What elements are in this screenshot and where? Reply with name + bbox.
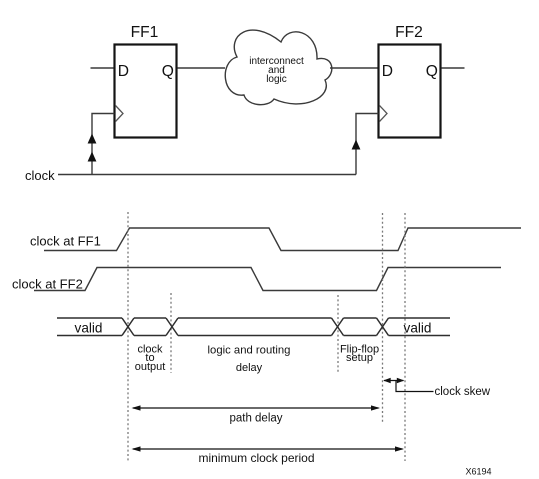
bus waveform data segments	[57, 318, 450, 336]
wire cloud to D input of FF2	[330, 67, 378, 69]
minimum clock period double arrow	[133, 448, 403, 450]
svg-text:delay: delay	[236, 362, 263, 374]
svg-text:valid: valid	[75, 321, 103, 336]
cloud interconnect and logic	[225, 30, 332, 105]
arrowhead up on FF2 clock wire	[352, 140, 361, 150]
svg-text:setup: setup	[346, 352, 373, 364]
bus crossover X2	[166, 318, 178, 336]
wire D input of FF1	[91, 67, 114, 69]
svg-text:output: output	[135, 361, 166, 373]
svg-text:X6194: X6194	[466, 467, 492, 477]
svg-text:Q: Q	[426, 63, 438, 80]
svg-text:clock: clock	[25, 168, 55, 183]
svg-text:minimum clock period: minimum clock period	[198, 451, 314, 465]
wire Q output of FF2	[442, 67, 465, 69]
svg-text:Q: Q	[162, 63, 174, 80]
svg-text:FF2: FF2	[395, 24, 423, 41]
guide dotted line at FF2 second edge	[382, 213, 384, 424]
guide dotted line at setup start	[337, 295, 339, 373]
waveform clock at FF1	[44, 228, 521, 251]
bus crossover X3	[332, 318, 344, 336]
clock skew leader line	[396, 381, 434, 392]
clock skew double arrow	[384, 380, 404, 382]
wire clock branch to FF1	[92, 114, 115, 175]
guide dotted line at FF1 second edge	[404, 213, 406, 461]
svg-text:clock skew: clock skew	[435, 386, 491, 398]
wire Q output of FF1 to cloud	[178, 67, 226, 69]
svg-text:D: D	[382, 63, 393, 80]
flip-flop U2 box FF2	[379, 45, 441, 138]
svg-text:FF1: FF1	[131, 24, 159, 41]
arrowhead up 2 on FF1 clock wire	[88, 152, 97, 162]
svg-text:D: D	[118, 63, 129, 80]
wire clock net horizontal	[58, 174, 356, 176]
arrowhead up 1 on FF1 clock wire	[88, 134, 97, 144]
svg-text:clock at FF1: clock at FF1	[30, 234, 101, 249]
waveform clock at FF2	[34, 268, 501, 291]
path delay double arrow	[133, 407, 379, 409]
svg-text:clock at FF2: clock at FF2	[12, 277, 83, 292]
wire clock branch to FF2	[356, 114, 379, 175]
bus crossover X4	[377, 318, 389, 336]
svg-text:path delay: path delay	[229, 413, 282, 425]
svg-text:logic and routing: logic and routing	[208, 345, 291, 357]
guide dotted line at first clock edge	[127, 212, 129, 461]
flip-flop U1 box FF1	[115, 45, 177, 138]
guide dotted line at clock-to-output end	[170, 293, 172, 373]
bus crossover X1	[122, 318, 134, 336]
svg-text:valid: valid	[404, 321, 432, 336]
svg-text:logic: logic	[266, 74, 287, 85]
clock wedge of FF1	[116, 106, 124, 122]
clock wedge of FF2	[380, 106, 388, 122]
